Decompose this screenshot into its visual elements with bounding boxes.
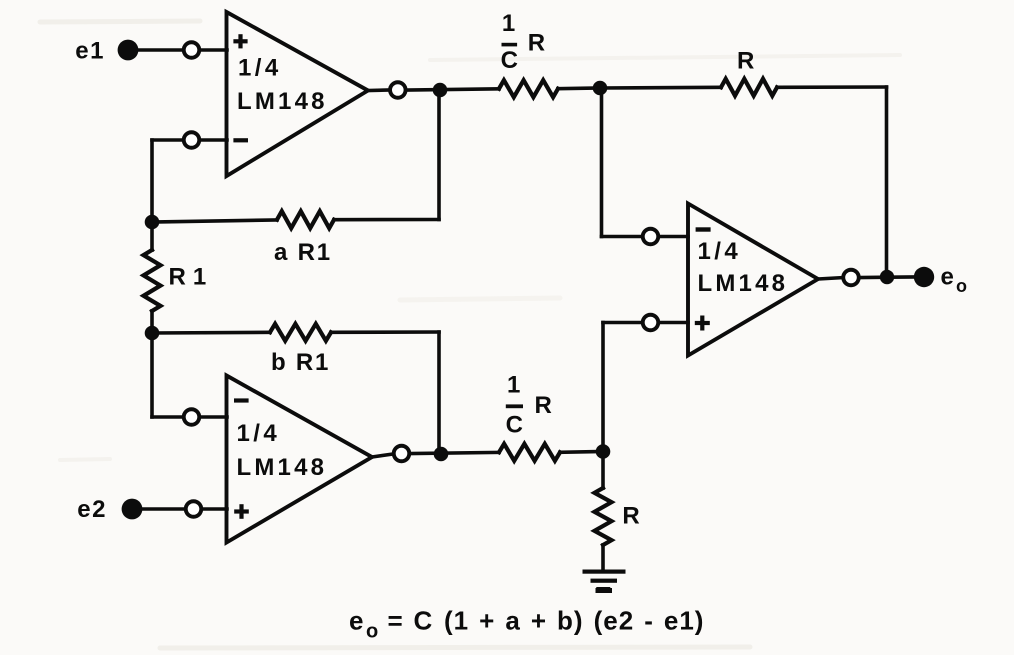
svg-text:e: e <box>349 606 363 636</box>
svg-text:e: e <box>941 264 954 291</box>
svg-text:LM148: LM148 <box>237 454 328 481</box>
svg-text:R1: R1 <box>169 264 214 291</box>
svg-text:o: o <box>956 276 967 296</box>
svg-text:R: R <box>535 392 552 419</box>
svg-text:R: R <box>622 503 639 530</box>
svg-text:(1 + a + b) (e2 - e1): (1 + a + b) (e2 - e1) <box>444 606 704 636</box>
svg-text:=: = <box>388 606 403 636</box>
svg-text:C: C <box>506 412 523 439</box>
svg-text:1/4: 1/4 <box>238 55 282 82</box>
svg-text:R: R <box>528 30 545 57</box>
svg-text:a R1: a R1 <box>274 239 332 266</box>
svg-text:1: 1 <box>502 10 515 37</box>
svg-text:C: C <box>414 606 433 636</box>
svg-text:LM148: LM148 <box>698 270 789 297</box>
svg-text:b R1: b R1 <box>271 349 330 376</box>
svg-text:1/4: 1/4 <box>237 420 281 447</box>
svg-text:o: o <box>366 621 378 643</box>
svg-text:e2: e2 <box>77 496 107 523</box>
svg-text:R: R <box>737 48 754 75</box>
svg-text:e1: e1 <box>75 38 105 65</box>
svg-text:LM148: LM148 <box>237 88 328 115</box>
svg-text:1: 1 <box>507 372 520 399</box>
svg-text:C: C <box>501 47 518 74</box>
svg-text:1/4: 1/4 <box>698 238 742 265</box>
